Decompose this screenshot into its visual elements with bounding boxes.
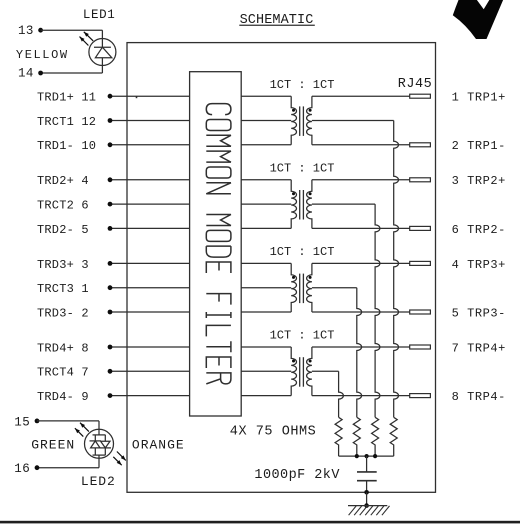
svg-text:TRCT2 6: TRCT2 6 bbox=[37, 199, 89, 213]
svg-text:ORANGE: ORANGE bbox=[132, 438, 185, 453]
wire T4 center tap drop to R4 (with crossovers) bbox=[339, 371, 344, 417]
wire T3 secondary center tap bbox=[312, 287, 357, 289]
wire to ground bbox=[366, 492, 368, 505]
transformer T2 primary winding bbox=[291, 180, 296, 229]
wire T3 secondary bottom to RJ45 bbox=[312, 311, 410, 313]
pin label 8 TRP4- bbox=[452, 390, 506, 404]
wire T2 secondary top to RJ45 bbox=[312, 179, 410, 181]
svg-text:TRD1- 10: TRD1- 10 bbox=[37, 139, 96, 153]
svg-text:1CT : 1CT: 1CT : 1CT bbox=[270, 78, 335, 92]
node pin 14 dot bbox=[38, 71, 43, 76]
svg-text:16: 16 bbox=[14, 462, 30, 476]
transformer T4 core bbox=[300, 357, 304, 387]
wire T2 secondary bottom to RJ45 bbox=[312, 227, 410, 229]
color label YELLOW bbox=[16, 48, 69, 62]
transformer T2 primary phase dot bbox=[292, 192, 295, 195]
wire TRD4- to filter bbox=[110, 395, 190, 397]
wire pin 15 to LED2 bbox=[37, 421, 99, 435]
capacitor C1 1000pF lead top bbox=[366, 456, 368, 472]
wire T4 secondary bottom to RJ45 bbox=[312, 395, 410, 397]
resistor R4 75 ohms bbox=[335, 417, 342, 456]
transformer T3 core bbox=[300, 274, 304, 304]
wire filter to T1 primary center tap bbox=[241, 120, 291, 122]
transformer T2 label 1CT : 1CT bbox=[270, 162, 335, 176]
wire filter to T2 primary bottom bbox=[241, 227, 291, 229]
pin label 15 bbox=[14, 416, 30, 430]
junction dot at ground bbox=[364, 503, 369, 508]
wire T2 secondary center tap bbox=[312, 203, 375, 205]
node TRD1+ terminal dot bbox=[108, 94, 113, 99]
wire T1 secondary top to RJ45 bbox=[312, 95, 410, 97]
node TRD3+ terminal dot bbox=[108, 261, 113, 266]
wire filter to T1 primary bottom bbox=[241, 144, 291, 146]
pin label TRD4+ 8 bbox=[37, 341, 89, 355]
title SCHEMATIC bbox=[239, 13, 314, 28]
wire filter to T3 primary bottom bbox=[241, 311, 291, 313]
junction dot R3 bottom bbox=[355, 454, 359, 458]
transformer T2 core bbox=[300, 190, 304, 220]
LED2 symbol (bicolor green/orange) bbox=[85, 429, 114, 458]
RJ45 pin 3 contact bbox=[410, 178, 431, 182]
pin label 2 TRP1- bbox=[452, 139, 506, 153]
pin label TRD3- 2 bbox=[37, 306, 89, 320]
svg-text:2 TRP1-: 2 TRP1- bbox=[452, 139, 506, 153]
resistor R1 75 ohms bbox=[390, 417, 397, 456]
pin label 7 TRP4+ bbox=[452, 341, 506, 355]
wire TRD4+ to filter bbox=[110, 346, 190, 348]
svg-text:GREEN: GREEN bbox=[31, 438, 75, 453]
svg-text:1000pF 2kV: 1000pF 2kV bbox=[254, 468, 340, 483]
svg-text:TRCT4 7: TRCT4 7 bbox=[37, 366, 89, 380]
pin label TRD4- 9 bbox=[37, 390, 89, 404]
LED2 light arrows upper left bbox=[75, 423, 89, 437]
node TRCT2 terminal dot bbox=[108, 202, 113, 207]
node TRD4+ terminal dot bbox=[108, 345, 113, 350]
RJ45 pin 2 contact bbox=[410, 143, 431, 147]
pin label 14 bbox=[18, 67, 34, 81]
transformer T3 secondary phase dot bbox=[309, 276, 312, 279]
node TRCT3 terminal dot bbox=[108, 285, 113, 290]
svg-text:4 TRP3+: 4 TRP3+ bbox=[452, 258, 506, 272]
wire T2 center tap drop to R2 (with crossovers) bbox=[375, 204, 380, 417]
wire T4 secondary center tap bbox=[312, 370, 339, 372]
pin label TRD1+ 11 bbox=[37, 91, 96, 105]
wire filter to T3 primary top bbox=[241, 262, 291, 264]
svg-text:8 TRP4-: 8 TRP4- bbox=[452, 390, 506, 404]
svg-text:TRD4- 9: TRD4- 9 bbox=[37, 390, 89, 404]
pin label 13 bbox=[18, 24, 34, 38]
node TRCT4 terminal dot bbox=[108, 369, 113, 374]
transformer T3 label 1CT : 1CT bbox=[270, 245, 335, 259]
wire filter to T4 primary top bbox=[241, 346, 291, 348]
RJ45 pin 6 contact bbox=[410, 226, 431, 230]
node pin 15 dot bbox=[35, 419, 40, 424]
transformer T3 primary winding bbox=[291, 263, 296, 312]
node TRCT1 terminal dot bbox=[108, 118, 113, 123]
wire filter to T4 primary bottom bbox=[241, 395, 291, 397]
net tick on TRD1+ wire bbox=[136, 96, 138, 98]
wire TRD2+ to filter bbox=[110, 179, 190, 181]
node TRD1- terminal dot bbox=[108, 142, 113, 147]
wire TRD3- to filter bbox=[110, 311, 190, 313]
wire filter to T2 primary top bbox=[241, 179, 291, 181]
capacitor value label 1000pF 2kV bbox=[254, 468, 340, 483]
color label ORANGE bbox=[132, 438, 185, 453]
transformer T1 core bbox=[300, 106, 304, 135]
wire pin 13 to LED1 anode bbox=[41, 30, 103, 47]
ground (chassis) symbol bbox=[348, 506, 390, 516]
pin label TRD2+ 4 bbox=[37, 174, 89, 188]
wire LED1 cathode to pin 14 bbox=[41, 58, 103, 73]
svg-text:TRD1+ 11: TRD1+ 11 bbox=[37, 91, 96, 105]
wire filter to T3 primary center tap bbox=[241, 287, 291, 289]
resistor R3 75 ohms bbox=[353, 417, 360, 456]
wire TRCT2 to filter bbox=[110, 203, 190, 205]
RJ45 pin 1 contact bbox=[410, 94, 431, 98]
wire TRCT4 to filter bbox=[110, 370, 190, 372]
capacitor C1 plates bbox=[357, 472, 377, 481]
svg-text:5 TRP3-: 5 TRP3- bbox=[452, 306, 506, 320]
svg-text:TRD3- 2: TRD3- 2 bbox=[37, 306, 89, 320]
wire T1 secondary bottom to RJ45 bbox=[312, 144, 410, 146]
RJ45 pin 5 contact bbox=[410, 310, 431, 314]
LED2 light arrows lower right bbox=[113, 452, 126, 466]
node pin 16 dot bbox=[35, 465, 40, 470]
wire T1 secondary center tap bbox=[312, 120, 394, 122]
checkmark logo bbox=[453, 0, 503, 39]
junction dot at box bottom bbox=[364, 490, 369, 495]
svg-text:1CT : 1CT: 1CT : 1CT bbox=[270, 245, 335, 259]
RJ45 label bbox=[398, 77, 432, 92]
svg-text:6 TRP2-: 6 TRP2- bbox=[452, 223, 506, 237]
LED2 label bbox=[81, 474, 116, 489]
transformer T1 secondary winding bbox=[307, 96, 312, 145]
node TRD4- terminal dot bbox=[108, 393, 113, 398]
svg-text:1CT : 1CT: 1CT : 1CT bbox=[270, 329, 335, 343]
svg-text:TRD2+ 4: TRD2+ 4 bbox=[37, 174, 89, 188]
svg-text:TRD2- 5: TRD2- 5 bbox=[37, 223, 89, 237]
LED1 symbol (yellow) bbox=[89, 39, 116, 66]
node TRD2- terminal dot bbox=[108, 226, 113, 231]
transformer T1 primary winding bbox=[291, 96, 296, 145]
RJ45 pin 7 contact bbox=[410, 345, 431, 349]
transformer T3 primary phase dot bbox=[292, 276, 295, 279]
bottom page border bbox=[0, 521, 520, 524]
junction dot R2 bottom bbox=[373, 454, 377, 458]
main box (connector outline) bbox=[127, 43, 436, 493]
wire resistor common rail bbox=[339, 455, 394, 457]
RJ45 pin 8 contact bbox=[410, 394, 431, 398]
transformer T4 label 1CT : 1CT bbox=[270, 329, 335, 343]
svg-text:TRD3+ 3: TRD3+ 3 bbox=[37, 258, 89, 272]
transformer T4 primary phase dot bbox=[292, 360, 295, 363]
svg-text:RJ45: RJ45 bbox=[398, 77, 432, 92]
wire TRD1- to filter bbox=[110, 144, 190, 146]
pin label TRD1- 10 bbox=[37, 139, 96, 153]
svg-text:7 TRP4+: 7 TRP4+ bbox=[452, 341, 506, 355]
resistor R2 75 ohms bbox=[372, 417, 379, 456]
LED1 label bbox=[83, 8, 115, 22]
wire T4 secondary top to RJ45 bbox=[312, 346, 410, 348]
junction dot capacitor tap bbox=[365, 454, 369, 458]
pin label 6 TRP2- bbox=[452, 223, 506, 237]
pin label TRCT2 6 bbox=[37, 199, 89, 213]
transformer T1 secondary phase dot bbox=[309, 109, 312, 112]
pin label 1 TRP1+ bbox=[452, 91, 506, 105]
transformer T4 secondary phase dot bbox=[309, 360, 312, 363]
svg-text:TRCT1 12: TRCT1 12 bbox=[37, 115, 96, 129]
node TRD2+ terminal dot bbox=[108, 177, 113, 182]
transformer T3 secondary winding bbox=[307, 263, 312, 312]
pin label 5 TRP3- bbox=[452, 306, 506, 320]
svg-text:LED2: LED2 bbox=[81, 474, 116, 489]
pin label TRCT1 12 bbox=[37, 115, 96, 129]
LED1 light arrows bbox=[80, 32, 94, 46]
svg-text:13: 13 bbox=[18, 24, 34, 38]
wire LED2 to pin 16 bbox=[37, 455, 99, 468]
wire TRCT3 to filter bbox=[110, 287, 190, 289]
transformer T4 secondary winding bbox=[307, 347, 312, 396]
capacitor C1 lead bottom bbox=[366, 481, 368, 493]
wire filter to T2 primary center tap bbox=[241, 203, 291, 205]
svg-text:YELLOW: YELLOW bbox=[16, 48, 69, 62]
pin label TRCT4 7 bbox=[37, 366, 89, 380]
svg-text:4X 75 OHMS: 4X 75 OHMS bbox=[230, 425, 317, 440]
wire TRD2- to filter bbox=[110, 227, 190, 229]
transformer T2 secondary phase dot bbox=[309, 192, 312, 195]
svg-text:3 TRP2+: 3 TRP2+ bbox=[452, 174, 506, 188]
wire filter to T4 primary center tap bbox=[241, 370, 291, 372]
pin label TRD3+ 3 bbox=[37, 258, 89, 272]
svg-text:15: 15 bbox=[14, 416, 30, 430]
pin label 4 TRP3+ bbox=[452, 258, 506, 272]
pin label TRD2- 5 bbox=[37, 223, 89, 237]
svg-text:1 TRP1+: 1 TRP1+ bbox=[452, 91, 506, 105]
svg-text:TRD4+ 8: TRD4+ 8 bbox=[37, 341, 89, 355]
wire TRCT1 to filter bbox=[110, 120, 190, 122]
wire TRD3+ to filter bbox=[110, 262, 190, 264]
wire TRD1+ to filter bbox=[110, 95, 190, 97]
svg-text:1CT : 1CT: 1CT : 1CT bbox=[270, 162, 335, 176]
pin label TRCT3 1 bbox=[37, 282, 89, 296]
color label GREEN bbox=[31, 438, 75, 453]
svg-text:LED1: LED1 bbox=[83, 8, 115, 22]
pin label 3 TRP2+ bbox=[452, 174, 506, 188]
svg-text:14: 14 bbox=[18, 67, 34, 81]
node TRD3- terminal dot bbox=[108, 310, 113, 315]
RJ45 pin 4 contact bbox=[410, 261, 431, 265]
svg-text:TRCT3 1: TRCT3 1 bbox=[37, 282, 89, 296]
transformer T4 primary winding bbox=[291, 347, 296, 396]
wire T3 secondary top to RJ45 bbox=[312, 262, 410, 264]
transformer T2 secondary winding bbox=[307, 180, 312, 229]
common mode filter U1 box bbox=[190, 72, 242, 416]
transformer T1 label 1CT : 1CT bbox=[270, 78, 335, 92]
pin label 16 bbox=[14, 462, 30, 476]
transformer T1 primary phase dot bbox=[292, 109, 295, 112]
resistor value label 4X 75 OHMS bbox=[230, 425, 317, 440]
wire T1 center tap drop to R1 (with crossovers) bbox=[394, 121, 399, 418]
node pin 13 dot bbox=[38, 28, 43, 33]
wire filter to T1 primary top bbox=[241, 95, 291, 97]
wire T3 center tap drop to R3 (with crossovers) bbox=[357, 288, 362, 418]
common mode filter U1 label bbox=[206, 104, 231, 384]
